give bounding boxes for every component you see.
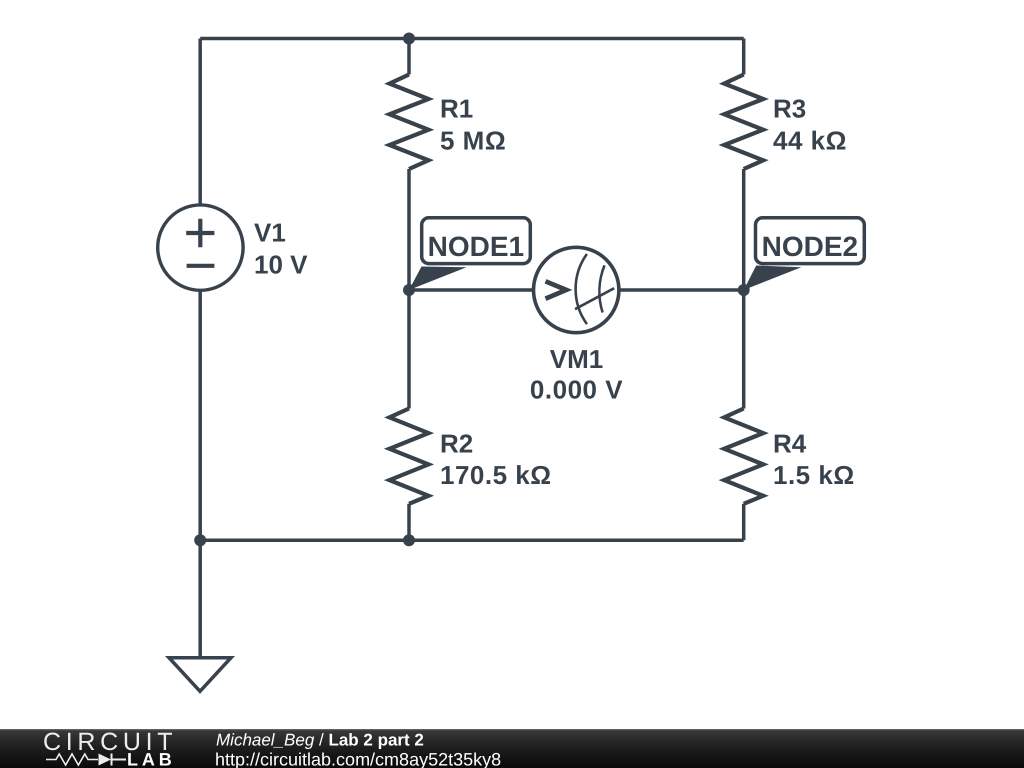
ground stub wire bbox=[198, 540, 202, 658]
svg-text:5 MΩ: 5 MΩ bbox=[440, 126, 506, 156]
svg-text:R3: R3 bbox=[773, 94, 806, 124]
R2 label bbox=[440, 429, 552, 491]
svg-text:NODE2: NODE2 bbox=[762, 231, 858, 262]
wire top junction to R1 bbox=[407, 39, 411, 75]
R3 label bbox=[773, 94, 847, 156]
svg-text:R2: R2 bbox=[440, 429, 473, 459]
NODE2 callout bbox=[744, 218, 865, 290]
svg-text:http://circuitlab.com/cm8ay52t: http://circuitlab.com/cm8ay52t35ky8 bbox=[215, 749, 501, 768]
CircuitLab logo bbox=[43, 728, 177, 768]
wire NODE1 to voltmeter bbox=[409, 288, 534, 292]
wire top to R3 bbox=[742, 39, 746, 75]
svg-text:170.5 kΩ: 170.5 kΩ bbox=[440, 460, 552, 490]
wire R3 to NODE2 bbox=[742, 169, 746, 290]
svg-text:VM1: VM1 bbox=[550, 344, 603, 374]
wire NODE1 to R2 bbox=[407, 290, 411, 409]
svg-text:10 V: 10 V bbox=[254, 250, 308, 280]
wire voltmeter to NODE2 bbox=[619, 288, 744, 292]
wire R4 to bottom bbox=[742, 504, 746, 540]
V1 label bbox=[254, 218, 308, 280]
bottom wire bbox=[200, 538, 744, 542]
voltmeter VM1 bbox=[534, 247, 619, 332]
svg-text:NODE1: NODE1 bbox=[428, 231, 524, 262]
svg-text:R4: R4 bbox=[773, 429, 807, 459]
node NODE1 dot bbox=[403, 284, 415, 296]
junction dot bottom left bbox=[194, 534, 206, 546]
resistor R4 bbox=[724, 409, 763, 504]
svg-text:R1: R1 bbox=[440, 94, 473, 124]
ground bbox=[169, 658, 231, 692]
svg-text:Michael_Beg / Lab 2 part 2: Michael_Beg / Lab 2 part 2 bbox=[216, 731, 424, 750]
wire R1 to NODE1 bbox=[407, 169, 411, 290]
NODE1 callout bbox=[409, 218, 530, 290]
svg-text:LAB: LAB bbox=[127, 749, 176, 768]
left wire top segment bbox=[198, 39, 202, 206]
resistor R1 bbox=[390, 75, 429, 170]
svg-text:44 kΩ: 44 kΩ bbox=[773, 126, 847, 156]
left wire bottom segment bbox=[198, 290, 202, 540]
R4 label bbox=[773, 429, 855, 491]
svg-text:1.5 kΩ: 1.5 kΩ bbox=[773, 460, 855, 490]
svg-text:V1: V1 bbox=[254, 218, 286, 248]
wire NODE2 to R4 bbox=[742, 290, 746, 409]
junction dot bottom middle bbox=[403, 534, 415, 546]
R1 label bbox=[440, 94, 506, 156]
resistor R3 bbox=[724, 75, 763, 170]
wire R2 to bottom bbox=[407, 504, 411, 540]
resistor R2 bbox=[390, 409, 429, 504]
junction dot top bbox=[403, 33, 415, 45]
voltage source V1 bbox=[158, 205, 243, 290]
VM1 label bbox=[530, 344, 623, 405]
top wire bbox=[200, 37, 744, 41]
svg-text:0.000 V: 0.000 V bbox=[530, 375, 623, 405]
node NODE2 dot bbox=[738, 284, 750, 296]
